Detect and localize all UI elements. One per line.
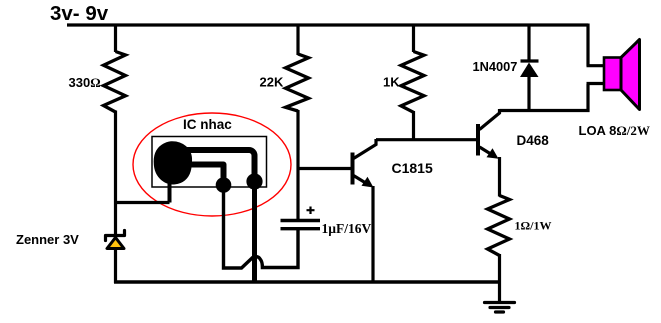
zener diode D zenner 3V anode triangle: [107, 238, 124, 249]
resistor R 22K: [286, 54, 309, 111]
ground symbol bar 2: [490, 306, 509, 309]
wire top rail down to speaker plus: [586, 24, 589, 67]
wire bottom ground rail: [114, 280, 500, 283]
wire 1 ohm bottom lead to ground: [498, 254, 501, 303]
transistor Q1 C1815 collector: [354, 139, 377, 159]
svg-text:IC nhac: IC nhac: [183, 117, 232, 132]
resistor R 1ohm/1W: [488, 196, 510, 256]
svg-text:3v- 9v: 3v- 9v: [50, 2, 109, 25]
speaker LS1 cone: [621, 40, 640, 110]
capacitor C1 top plate: [281, 219, 321, 222]
svg-text:Zenner 3V: Zenner 3V: [16, 232, 79, 247]
diode D1 1N4007 cathode bar: [521, 59, 539, 62]
wire 22K top lead: [296, 24, 299, 56]
svg-text:1Ω/1W: 1Ω/1W: [515, 219, 552, 233]
resistor R 1K: [401, 52, 424, 113]
transistor Q2 D468 base bar: [476, 124, 480, 156]
wire 1K bottom lead: [412, 111, 415, 141]
wire IC pin 1 down, hop over, to capacitor bottom: [224, 185, 299, 268]
wire IC blob stem: [168, 180, 172, 203]
speaker LS1 driver body: [604, 58, 621, 91]
wire 22K bottom lead to capacitor: [296, 110, 299, 219]
ground symbol bar 1: [485, 301, 515, 304]
svg-text:1µF/16V: 1µF/16V: [322, 221, 372, 236]
resistor R 330ohm: [104, 52, 126, 113]
diode D1 1N4007 triangle: [520, 63, 539, 78]
red highlight ellipse around IC nhac: [133, 113, 291, 216]
wire IC pin 2 down to ground rail (thick): [252, 182, 257, 284]
wire top power rail: [67, 23, 588, 26]
wire collector node to speaker return: [500, 84, 589, 111]
IC nhac package rectangle: [152, 137, 267, 188]
svg-text:D468: D468: [517, 133, 550, 148]
svg-text:C1815: C1815: [392, 160, 433, 176]
transistor Q1 C1815 base bar: [351, 153, 355, 185]
svg-text:1N4007: 1N4007: [473, 59, 518, 74]
svg-text:330Ω: 330Ω: [69, 75, 101, 90]
transistor Q2 D468 collector: [480, 109, 500, 130]
wire collector-base link C1815 to D468: [376, 138, 476, 141]
capacitor C1 bottom plate: [281, 227, 321, 230]
wire speaker minus stub: [587, 82, 605, 85]
zener diode D zenner 3V cathode bar: [106, 231, 125, 241]
wire 1N4007 top lead: [527, 24, 530, 62]
wire speaker plus stub: [587, 64, 605, 67]
IC nhac chip blob: [154, 142, 191, 184]
wire 1N4007 bottom lead: [527, 76, 530, 112]
wire C1815 emitter down to ground rail: [371, 186, 374, 283]
IC trace to pin 1 (middle, thick): [186, 165, 224, 184]
wire left rail below 330 ohm: [114, 111, 117, 284]
IC pin 2 pad dot: [246, 173, 262, 189]
wire C1815 base feed: [298, 167, 351, 170]
svg-text:LOA 8Ω/2W: LOA 8Ω/2W: [579, 123, 650, 138]
capacitor C1 plus sign: [307, 207, 315, 215]
transistor Q1 C1815 emitter with arrow: [354, 176, 374, 188]
transistor Q2 D468 emitter with arrow: [480, 147, 499, 159]
wire node A horizontal from left rail to IC blob stem: [114, 201, 170, 204]
ground symbol bar 3: [496, 310, 504, 313]
svg-text:22K: 22K: [260, 75, 284, 90]
svg-text:1K: 1K: [383, 75, 400, 90]
wire D468 emitter down to 1 ohm resistor: [498, 157, 501, 197]
IC trace to pin 2 (right, thick): [178, 150, 255, 182]
wire 1K top lead: [412, 24, 415, 53]
IC pin 1 pad dot: [216, 177, 232, 193]
wire 330 ohm top lead: [114, 24, 117, 53]
